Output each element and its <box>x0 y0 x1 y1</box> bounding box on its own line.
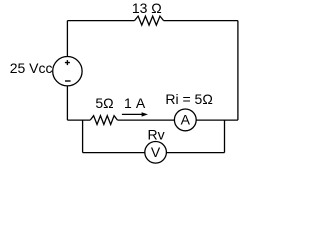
ammeter A1 <box>174 109 196 131</box>
wire top right segment <box>164 20 238 22</box>
wire top-left vertical <box>66 21 68 57</box>
svg-text:A: A <box>181 112 191 128</box>
wire top left segment <box>67 20 134 22</box>
wire middle left segment <box>67 119 90 121</box>
svg-text:Rv: Rv <box>148 126 165 142</box>
wire middle center segment <box>118 119 175 121</box>
svg-text:V: V <box>151 144 161 160</box>
svg-text:Ri = 5Ω: Ri = 5Ω <box>165 91 212 107</box>
svg-text:1 A: 1 A <box>124 95 146 111</box>
svg-text:13 Ω: 13 Ω <box>132 0 162 16</box>
wire left vertical lower <box>66 86 68 120</box>
resistor 5ohm <box>90 116 117 125</box>
wire bottom right segment <box>166 152 224 154</box>
svg-text:5Ω: 5Ω <box>95 95 113 111</box>
svg-text:25 Vcc: 25 Vcc <box>10 60 53 76</box>
wire right vertical <box>237 21 239 121</box>
voltmeter V2 <box>145 142 167 164</box>
wire right drop <box>224 120 226 153</box>
wire bottom left segment <box>83 152 145 154</box>
current arrow <box>122 112 148 116</box>
wire middle right segment <box>196 119 238 121</box>
resistor 13ohm <box>135 16 164 25</box>
voltage source V1 <box>53 56 82 85</box>
wire left drop <box>82 120 84 153</box>
